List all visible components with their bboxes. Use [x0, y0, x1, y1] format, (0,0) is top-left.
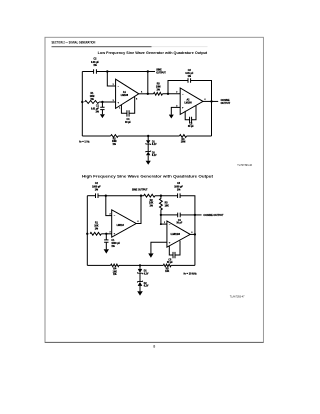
label fo = 1 Hz [79, 141, 90, 144]
node A2 feedback tap [167, 93, 169, 95]
label COSINE OUTPUT [203, 214, 224, 217]
svg-text:16K: 16K [149, 203, 154, 205]
value label R3 16K [165, 203, 170, 208]
wire A1 output [139, 93, 154, 95]
pin 2 label A1 [109, 213, 110, 215]
capacitor C3 [188, 78, 191, 83]
resistor R5 16K [163, 264, 171, 267]
section header text [52, 41, 96, 45]
op-amp A2 LM118 [167, 221, 190, 247]
value label D2 [144, 283, 149, 288]
node R1 left on rail [86, 233, 88, 235]
svg-text:16K: 16K [94, 225, 99, 227]
label SINE OUTPUT [156, 70, 166, 75]
svg-text:30 pF: 30 pF [176, 222, 183, 224]
pin 6 label A1 [141, 91, 142, 93]
compensation pins A2 [185, 105, 196, 119]
node sine output [147, 70, 149, 72]
value label R2 10M 1% [112, 138, 117, 145]
pin 3 label A2 [176, 105, 177, 107]
node C1 tap [105, 233, 107, 235]
pin 1 label A1 [119, 107, 120, 109]
wire R3 to A2 inverting input [163, 93, 181, 95]
svg-text:1000 pF: 1000 pF [174, 187, 183, 189]
svg-text:OUTPUT: OUTPUT [156, 73, 166, 75]
svg-text:30 pF: 30 pF [167, 262, 174, 264]
value label R1 10M 1% [90, 93, 95, 101]
wire mid line to C4 [161, 214, 178, 216]
svg-text:16K: 16K [165, 205, 170, 207]
wire top rail left segment [87, 195, 95, 197]
node cosine output [194, 214, 196, 216]
compensation pins A2 [169, 241, 180, 255]
page number 8 [153, 345, 155, 349]
title circuit 1 [98, 51, 209, 55]
label fo = 10 kHz [184, 272, 198, 275]
svg-text:6: 6 [204, 99, 205, 101]
svg-text:LM118: LM118 [117, 225, 125, 227]
label COSINE OUTPUT [221, 100, 231, 105]
value label C3 1000 pF 1% [174, 183, 183, 191]
pin 6 label A2 [204, 99, 205, 101]
label A2 LM118 [171, 234, 181, 236]
svg-text:6.2V: 6.2V [144, 273, 149, 275]
svg-text:6: 6 [141, 91, 142, 93]
pin 3 label A1 [113, 100, 114, 102]
svg-text:SINE OUTPUT: SINE OUTPUT [132, 189, 148, 191]
node A1 output [147, 93, 149, 95]
resistor R2 10M [111, 135, 119, 138]
svg-text:6: 6 [191, 232, 192, 234]
svg-text:2: 2 [164, 222, 165, 224]
svg-text:LM118: LM118 [171, 234, 181, 236]
zener D2 [146, 151, 151, 161]
value label 30 pF A2 [167, 259, 174, 264]
svg-text:0.01 µF: 0.01 µF [91, 62, 100, 64]
svg-text:10M: 10M [181, 142, 186, 144]
wire left rail [81, 72, 83, 137]
svg-text:COSINE OUTPUT: COSINE OUTPUT [203, 214, 224, 217]
svg-text:1: 1 [119, 107, 120, 109]
svg-text:10M: 10M [90, 96, 95, 98]
wire C4 to cosine node [180, 214, 195, 216]
wire sine output stub [148, 71, 155, 73]
resistor R3 16K vertical [160, 196, 163, 215]
wire top rail right segment [96, 71, 147, 73]
wire top rail to sine node [98, 195, 144, 197]
svg-text:TL/H/7393-47: TL/H/7393-47 [230, 295, 245, 298]
page frame [45, 37, 263, 343]
svg-text:High Frequency Sine Wave Gener: High Frequency Sine Wave Generator with … [82, 174, 214, 178]
zener D1 [146, 136, 151, 145]
resistor R3 10M [154, 92, 163, 95]
capacitor C1 [104, 234, 108, 250]
node sine output [140, 195, 142, 197]
svg-text:6.2V: 6.2V [152, 144, 157, 146]
wire drop to A1 inverting input [107, 72, 115, 87]
wire drop to A2 inverting input [161, 215, 167, 224]
ground under C1 [100, 114, 105, 118]
value label R4 10M [181, 138, 186, 144]
value label R2 16K 1% [149, 200, 154, 208]
ground under zeners [137, 291, 143, 295]
wire A1 output [136, 196, 141, 224]
node A2 inverting corner [160, 223, 162, 225]
resistor R1 10M [85, 101, 99, 104]
ground at A2 plus input [169, 115, 174, 119]
node R1 left on rail [81, 101, 83, 103]
op-amp A2 input polarity marks [182, 93, 184, 110]
svg-text:LM108: LM108 [121, 95, 129, 97]
svg-text:3: 3 [176, 105, 177, 107]
compensation capacitor A1 30 pF [127, 110, 129, 116]
svg-text:8: 8 [153, 345, 155, 349]
svg-text:3: 3 [109, 231, 110, 233]
header rule [52, 45, 208, 48]
svg-text:2: 2 [109, 213, 110, 215]
node zener branch [147, 135, 149, 137]
svg-text:10M: 10M [156, 87, 161, 89]
wire R1 to A1 plus input [101, 233, 111, 235]
wire A2 plus input to ground [171, 107, 180, 114]
svg-text:Low Frequency Sine Wave Genera: Low Frequency Sine Wave Generator with Q… [98, 51, 209, 55]
capacitor C2 [96, 193, 99, 198]
svg-text:fo = 10 kHz: fo = 10 kHz [184, 272, 198, 275]
figure reference TL/H/7393-46 [237, 164, 252, 167]
svg-text:6.2V: 6.2V [144, 286, 149, 288]
op-amp A1 input polarity marks [117, 85, 119, 104]
resistor R4 10M [179, 135, 186, 138]
figure reference TL/H/7393-47 [230, 295, 245, 298]
svg-text:0.01 µF: 0.01 µF [185, 73, 194, 75]
capacitor C2 [94, 69, 97, 74]
value label 30 pF A1 [125, 118, 132, 124]
svg-text:3: 3 [113, 100, 114, 102]
value label C1 0.01 uF 1% [91, 106, 100, 114]
svg-text:8: 8 [136, 99, 137, 101]
wire A2 output to bottom rail [211, 101, 213, 136]
op-amp A1 LM118 [112, 210, 137, 237]
label SINE OUTPUT [132, 189, 148, 191]
svg-text:30 pF: 30 pF [125, 122, 132, 124]
label A1 LM118 [117, 225, 125, 227]
svg-text:1000 pF: 1000 pF [92, 186, 101, 188]
wire R1 to A1 plus input [99, 101, 116, 103]
value label D1 [144, 271, 149, 276]
value label R4 16K 1% [113, 268, 118, 277]
wire C3 to A2 output corner [191, 81, 212, 102]
wire between zeners [139, 273, 141, 281]
label A2 LM108 [184, 98, 192, 104]
resistor R2 16K [144, 194, 155, 197]
value label R1 16K 1% [94, 222, 99, 230]
wire bottom rail [82, 135, 211, 137]
svg-text:0.01 µF: 0.01 µF [91, 109, 100, 111]
label A1 LM108 [121, 91, 129, 97]
op-amp A2 input polarity marks [169, 223, 171, 244]
value label 30 pF A2 [188, 123, 195, 128]
zener D2 [137, 281, 142, 292]
wire left rail [86, 196, 88, 266]
svg-text:16K: 16K [113, 271, 118, 273]
svg-text:16K: 16K [165, 271, 170, 273]
value label C2 1000 pF 1% [92, 183, 101, 191]
svg-text:fo = 1 Hz: fo = 1 Hz [79, 141, 90, 144]
value label D1 [152, 142, 157, 147]
op-amp A1 LM108 [116, 79, 139, 108]
svg-text:COSINE: COSINE [221, 100, 230, 102]
capacitor C4 [178, 213, 181, 218]
svg-text:2: 2 [113, 84, 114, 86]
svg-text:SINE: SINE [156, 70, 162, 72]
wire bottom rail [87, 264, 195, 266]
wire A2 output [190, 233, 195, 235]
ground under zeners [146, 161, 151, 165]
capacitor C3 [178, 193, 181, 198]
svg-text:LM108: LM108 [184, 102, 192, 104]
node C1 tap [101, 101, 103, 103]
wire drop to A1 inverting input [106, 196, 112, 216]
value label D2 [152, 153, 157, 158]
compensation pins A1 [121, 97, 134, 114]
node C2-A1 inverting junction [105, 195, 107, 197]
svg-text:6.2V: 6.2V [152, 155, 157, 157]
node R3 bottom [160, 214, 162, 216]
resistor R4 16K [111, 264, 119, 267]
pin 2 label A2 [176, 92, 177, 94]
wire R2 to R3 node [155, 195, 178, 197]
ground under C1 [104, 249, 109, 253]
value label C4 30 pF [176, 219, 183, 225]
title circuit 2 [82, 174, 214, 178]
node zener branch [139, 264, 141, 266]
svg-text:6: 6 [137, 221, 138, 223]
value label C2 0.01 uF 1% [91, 59, 100, 67]
wire A2 output [203, 100, 218, 102]
value label R3 10M 1% [156, 84, 161, 92]
pin 6 label A1 [137, 221, 138, 223]
pin 3 label A1 [109, 231, 110, 233]
node cosine output [210, 100, 212, 102]
svg-text:OUTPUT: OUTPUT [221, 103, 231, 105]
node A2 output to rail [194, 233, 196, 235]
ground at A2 plus input [148, 253, 153, 257]
value label C3 0.01 uF 1% [185, 70, 194, 78]
pin 2 label A1 [113, 84, 114, 86]
svg-text:10M: 10M [112, 141, 117, 143]
compensation capacitor A2 30 pF [173, 252, 175, 258]
compensation capacitor A2 30 pF [190, 117, 192, 123]
svg-text:2: 2 [176, 92, 177, 94]
pin 6 label A2 [191, 232, 192, 234]
node C2-inverting input junction [106, 70, 108, 72]
node R3 top [160, 195, 162, 197]
wire top rail left segment [82, 71, 93, 73]
wire A2 plus input to ground [151, 242, 167, 253]
resistor R1 16K [90, 232, 101, 235]
value label C1 1000 pF 1% [111, 240, 120, 248]
wire between zeners [147, 144, 149, 151]
svg-text:TL/H/7393-46: TL/H/7393-46 [237, 164, 252, 167]
pin 2 label A2 [164, 222, 165, 224]
wire A2 feedback riser [168, 81, 188, 94]
svg-text:30 pF: 30 pF [188, 126, 195, 128]
wire sine output riser [147, 72, 149, 94]
value label R5 16K [165, 269, 170, 274]
op-amp A1 input polarity marks [114, 215, 116, 236]
capacitor C1 [100, 102, 104, 114]
svg-text:1000 pF: 1000 pF [111, 243, 120, 245]
pin 8 label A1 [136, 99, 137, 101]
op-amp A2 LM108 [180, 88, 203, 114]
wire cosine output stub [195, 214, 202, 216]
wire C3 to right rail corner [180, 196, 195, 266]
zener D1 [137, 265, 142, 274]
svg-text:SECTION 2 — SIGNAL GENERATION: SECTION 2 — SIGNAL GENERATION [52, 41, 96, 45]
